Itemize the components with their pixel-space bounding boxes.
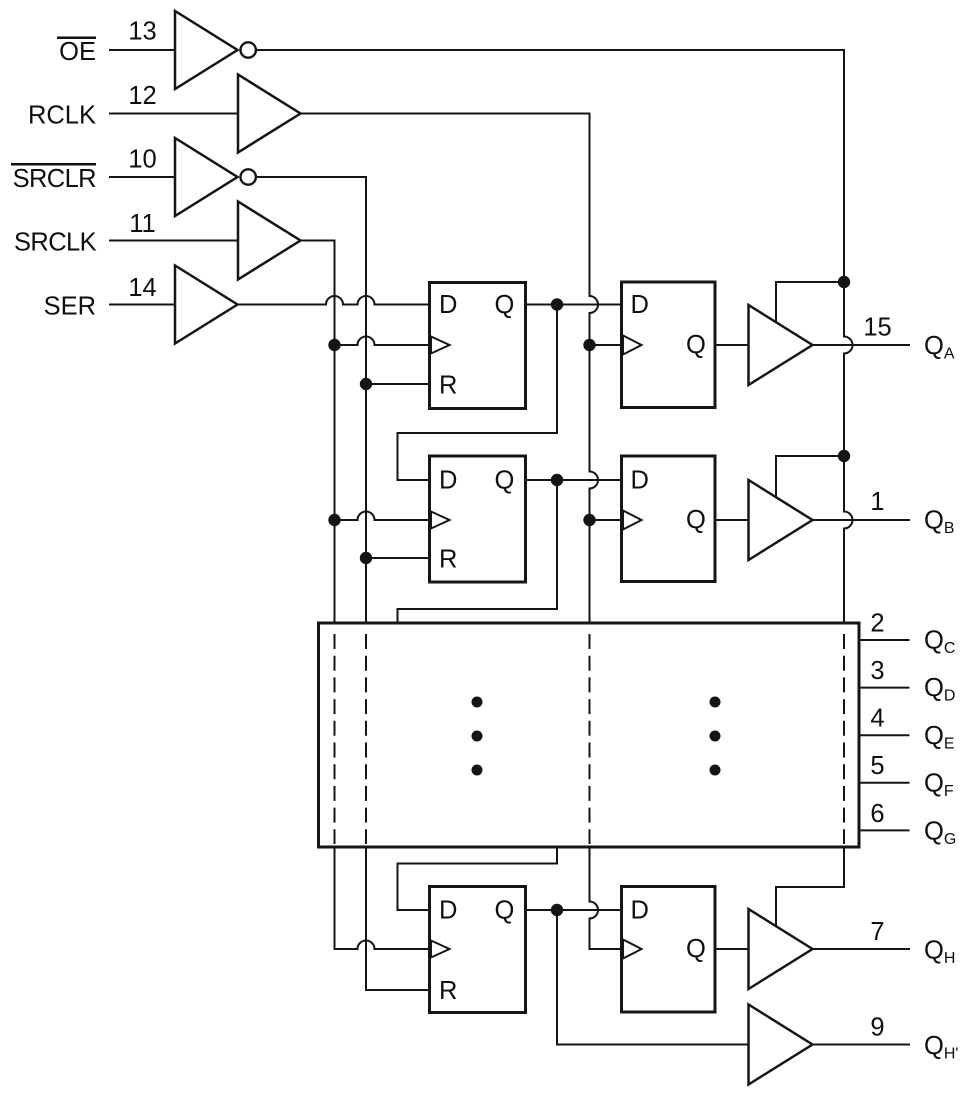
inverter U3 SRCLR xyxy=(175,138,238,216)
pin 3 label xyxy=(870,657,884,685)
pin 5 label xyxy=(870,752,884,780)
wire QH internal to buffer QH' xyxy=(557,910,749,1045)
wire SRCLK vertical rail upper xyxy=(334,241,336,624)
wire output QH xyxy=(813,948,910,950)
ellipsis dots right xyxy=(710,697,721,776)
wire latch L2 clock from RCLK xyxy=(590,519,621,521)
wire enable B from OE rail xyxy=(776,456,844,497)
svg-text:13: 13 xyxy=(128,18,156,46)
svg-text:12: 12 xyxy=(128,82,156,110)
node QH label xyxy=(924,937,955,968)
svg-text:D: D xyxy=(439,467,457,495)
svg-text:Q: Q xyxy=(495,467,515,495)
junction node QB internal xyxy=(551,474,563,486)
wire RCLK vertical rail lower with hop xyxy=(590,847,599,949)
wire SRCLR to rail xyxy=(257,176,366,178)
svg-text:3: 3 xyxy=(870,657,884,685)
node SRCLK input label xyxy=(14,229,97,257)
wire FF3 reset from SRCLR xyxy=(366,989,430,991)
pin 2 label xyxy=(870,610,884,638)
junction RCLK latchB xyxy=(583,514,595,526)
ellipsis dots left xyxy=(472,697,483,776)
svg-text:7: 7 xyxy=(870,918,884,946)
svg-text:D: D xyxy=(631,291,649,319)
wire SRCLK vertical rail lower xyxy=(334,847,336,949)
junction SRCLK clkA xyxy=(328,339,340,351)
pin 13 label xyxy=(128,18,156,46)
junction RCLK latchA xyxy=(583,339,595,351)
wire FF3 clock from SRCLK xyxy=(335,941,430,950)
wire SRCLR vertical rail upper xyxy=(365,177,367,623)
overline SRCLR xyxy=(11,163,96,166)
pin 10 label xyxy=(128,146,156,174)
node QH' label xyxy=(924,1032,958,1063)
junction node QH internal xyxy=(551,904,563,916)
node QC label xyxy=(924,627,955,658)
wire RCLK to rail xyxy=(301,113,590,115)
box middle stages C-G xyxy=(319,623,860,847)
svg-text:10: 10 xyxy=(128,146,156,174)
latch L3 H xyxy=(622,887,716,1013)
svg-text:6: 6 xyxy=(870,800,884,828)
buffer U5 SER xyxy=(175,266,238,344)
wire output QC xyxy=(859,639,909,641)
wire SRCLK dashed through box xyxy=(334,635,336,843)
pin 9 label xyxy=(870,1014,884,1042)
pin 12 label xyxy=(128,82,156,110)
wire RCLK input xyxy=(110,113,238,115)
inverter U1 OE xyxy=(175,11,238,89)
flip-flop FF1 stage A xyxy=(430,283,526,409)
flip-flop FF3 stage H xyxy=(430,887,526,1013)
latch L1 A xyxy=(622,282,716,408)
svg-text:1: 1 xyxy=(870,488,884,516)
svg-text:2: 2 xyxy=(870,610,884,638)
svg-text:Q: Q xyxy=(686,331,706,359)
wire FF3 Q to latch L3 D with hop xyxy=(526,909,621,911)
wire OE dashed through box xyxy=(843,635,845,843)
wire OE rail below box to buffer U8 enable xyxy=(776,847,844,926)
svg-text:OE: OE xyxy=(59,38,96,66)
node RCLK input label xyxy=(28,102,96,130)
svg-text:SRCLK: SRCLK xyxy=(14,229,97,257)
wire enable A from OE rail xyxy=(776,282,844,322)
wire FF1 clock from SRCLK xyxy=(335,337,430,346)
wire SER input xyxy=(110,304,175,306)
pin 14 label xyxy=(128,274,156,302)
buffer U8 output QH xyxy=(749,909,813,989)
wire RCLK vertical rail upper with hops xyxy=(590,114,599,624)
svg-text:SRCLR: SRCLR xyxy=(13,165,97,193)
wire output QE xyxy=(859,734,909,736)
flip-flop FF2 stage B xyxy=(430,456,526,582)
junction OE enableB xyxy=(838,450,850,462)
svg-text:RCLK: RCLK xyxy=(28,102,96,130)
svg-text:14: 14 xyxy=(128,274,156,302)
wire SER to FF1 D with hops xyxy=(238,296,430,305)
wire output QF xyxy=(859,782,909,784)
junction OE enableA xyxy=(838,276,850,288)
overline OE xyxy=(57,37,96,40)
node SRCLR input label xyxy=(13,165,97,193)
svg-text:R: R xyxy=(439,977,457,1005)
wire latch L1 Q to buffer xyxy=(717,344,749,346)
pin 1 label xyxy=(870,488,884,516)
wire SRCLR dashed through box xyxy=(365,635,367,843)
latch L2 B xyxy=(622,456,716,582)
junction node QA internal xyxy=(551,298,563,310)
svg-text:Q: Q xyxy=(495,897,515,925)
buffer U7 output QB xyxy=(749,480,813,560)
node QB label xyxy=(924,507,955,538)
svg-text:D: D xyxy=(631,467,649,495)
buffer U9 output QH' xyxy=(749,1005,813,1085)
pin 6 label xyxy=(870,800,884,828)
svg-text:Q: Q xyxy=(686,506,706,534)
svg-text:D: D xyxy=(439,291,457,319)
wire FF1 Q to latch L1 D with hop xyxy=(526,304,621,306)
wire output QA xyxy=(813,344,910,346)
wire OE to right rail xyxy=(257,49,844,51)
svg-text:SER: SER xyxy=(44,293,96,321)
wire output QG xyxy=(859,829,909,831)
svg-text:R: R xyxy=(439,372,457,400)
svg-text:9: 9 xyxy=(870,1014,884,1042)
wire SRCLK input xyxy=(110,240,238,242)
buffer U6 output QA xyxy=(749,305,813,385)
wire SRCLK to rail xyxy=(301,240,335,242)
wire SRCLR vertical rail lower xyxy=(365,847,367,990)
wire OE vertical rail with hops xyxy=(844,50,853,623)
svg-text:D: D xyxy=(631,897,649,925)
wire stage A to stage B xyxy=(398,305,558,481)
wire SRCLR input xyxy=(110,176,175,178)
node QF label xyxy=(924,770,954,801)
wire latch L1 clock from RCLK xyxy=(590,344,621,346)
junction SRCLR rstB xyxy=(360,552,372,564)
node QG label xyxy=(924,818,956,849)
svg-text:R: R xyxy=(439,546,457,574)
svg-text:5: 5 xyxy=(870,752,884,780)
wire output QD xyxy=(859,687,909,689)
wire FF2 clock from SRCLK xyxy=(335,512,430,521)
pin 11 label xyxy=(129,210,155,238)
node OE input label xyxy=(59,38,96,66)
node SER input label xyxy=(44,293,96,321)
buffer U4 SRCLK xyxy=(238,202,301,280)
svg-text:11: 11 xyxy=(129,210,155,238)
wire output QH' xyxy=(813,1044,910,1046)
wire stage B to big box xyxy=(398,480,558,623)
wire FF2 reset from SRCLR xyxy=(366,557,430,559)
svg-text:Q: Q xyxy=(495,291,515,319)
wire FF2 Q to latch L2 D with hop xyxy=(526,479,621,481)
wire FF1 reset from SRCLR xyxy=(366,383,430,385)
wire big box to stage H xyxy=(398,848,558,910)
buffer U2 RCLK xyxy=(238,75,301,153)
junction SRCLK clkB xyxy=(328,514,340,526)
wire latch L3 clock from RCLK xyxy=(590,948,621,950)
node QD label xyxy=(924,674,955,705)
wire OE input xyxy=(110,49,175,51)
pin 4 label xyxy=(870,705,884,733)
node QA label xyxy=(924,332,955,363)
svg-text:Q: Q xyxy=(686,935,706,963)
wire latch L3 Q to buffer xyxy=(717,948,749,950)
svg-text:4: 4 xyxy=(870,705,884,733)
pin 15 label xyxy=(863,314,891,342)
wire RCLK dashed through box xyxy=(589,635,591,843)
junction SRCLR rstA xyxy=(360,378,372,390)
node QE label xyxy=(924,722,955,753)
svg-text:15: 15 xyxy=(863,314,891,342)
wire latch L2 Q to buffer xyxy=(717,519,749,521)
svg-text:D: D xyxy=(439,897,457,925)
wire output QB xyxy=(813,519,910,521)
pin 7 label xyxy=(870,918,884,946)
